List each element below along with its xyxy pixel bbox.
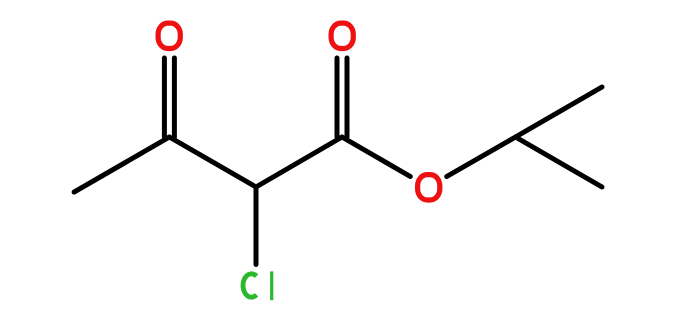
atom Cl chlorine: C arc	[243, 274, 256, 297]
bond C3=O1 (ketone C=O line b)	[172, 58, 177, 137]
bond C3=O1 (ketone C=O line a)	[162, 58, 167, 137]
bond C1-O3	[342, 137, 410, 177]
bond C2-Cl	[254, 187, 259, 265]
bond O3-CH (isopropyl methine)	[447, 137, 516, 177]
atom O2 ester carbonyl oxygen	[331, 23, 353, 48]
bond CH-CH3a (upper methyl)	[516, 87, 603, 137]
bond C1=O2 (ester C=O line a)	[335, 58, 340, 137]
bond CH-CH3b (lower methyl)	[516, 137, 603, 187]
bond C3-C2	[169, 137, 256, 187]
atom O3 ester oxygen	[418, 175, 440, 200]
bond C1=O2 (ester C=O line b)	[345, 58, 350, 137]
atom O1 ketone oxygen	[158, 23, 180, 48]
bond C2-C1	[256, 137, 342, 187]
atom Cl chlorine: l stem	[270, 271, 273, 300]
bond C4-C3 (methyl)	[74, 137, 169, 192]
